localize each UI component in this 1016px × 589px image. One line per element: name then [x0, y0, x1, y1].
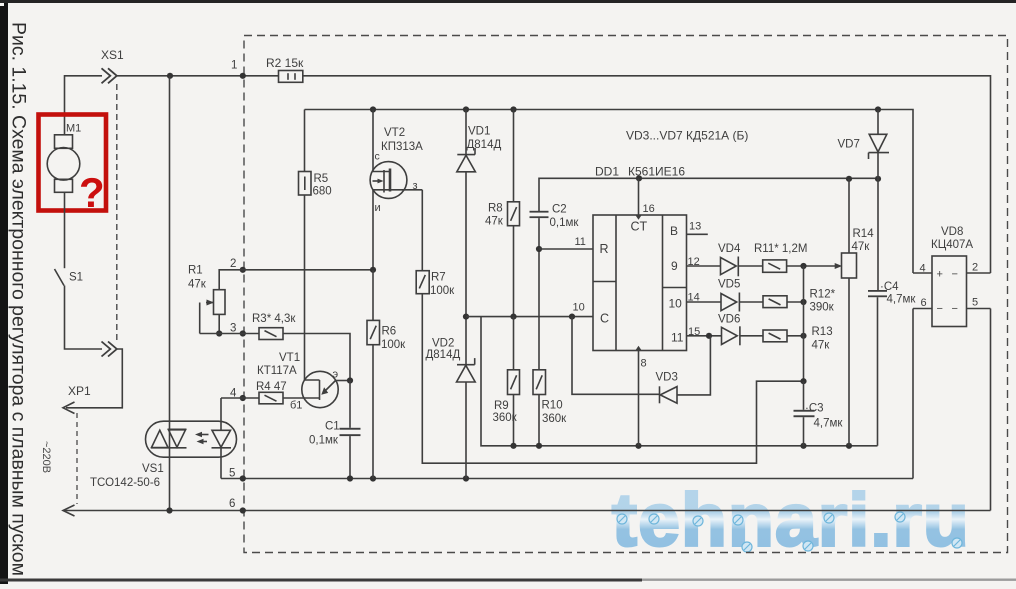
- svg-text:16: 16: [643, 203, 655, 215]
- svg-text:47к: 47к: [812, 340, 831, 352]
- wire motor to switch: [64, 192, 66, 268]
- dashed module boundary box: [244, 36, 1008, 553]
- connector XP1: [102, 342, 111, 357]
- capacitor C1 0.1uF: [309, 421, 361, 447]
- resistor R4 47: [256, 381, 287, 404]
- page top border line: [0, 0, 1016, 3]
- connector XS1/XP1 mating dashed line: [116, 84, 118, 340]
- wire R3 to VT1 emitter column: [283, 334, 350, 381]
- svg-text:13: 13: [689, 221, 701, 233]
- wire R1 lower lead: [218, 314, 220, 333]
- svg-text:б1: б1: [290, 400, 302, 412]
- svg-text:100к: 100к: [381, 339, 406, 351]
- zener VD2 D814D: [426, 338, 476, 383]
- svg-text:Д814Д: Д814Д: [467, 139, 502, 151]
- svg-text:и: и: [375, 202, 381, 214]
- svg-text:1: 1: [231, 60, 237, 72]
- wire node 3 row: [200, 333, 259, 335]
- pin 5 wire: [967, 308, 991, 310]
- wire supply bus to DD1 pin16: [539, 178, 878, 211]
- svg-text:11: 11: [575, 236, 586, 248]
- wire VT2 source to node2 bus: [372, 190, 374, 270]
- svg-text:47к: 47к: [852, 241, 871, 253]
- svg-text:э: э: [333, 369, 339, 381]
- svg-text:B: B: [670, 224, 678, 238]
- svg-text:C1: C1: [325, 421, 340, 433]
- trimmer R14 47k: [842, 179, 875, 446]
- wire VD7 to supply bus: [877, 153, 879, 179]
- resistor R12* 390k: [763, 289, 836, 314]
- svg-text:M1: M1: [66, 123, 81, 135]
- svg-text:10: 10: [669, 297, 683, 311]
- svg-text:S1: S1: [69, 272, 83, 284]
- svg-text:VD7: VD7: [838, 139, 860, 151]
- wire bottom return (node 6 bus) with arrow: [63, 510, 991, 512]
- svg-text:0,1мк: 0,1мк: [550, 217, 580, 229]
- svg-text:−: −: [952, 303, 958, 315]
- svg-text:R5: R5: [314, 173, 329, 185]
- svg-text:R13: R13: [812, 326, 833, 338]
- svg-text:·C4: ·C4: [880, 281, 899, 293]
- wire VT2 gate down to R7: [421, 190, 423, 271]
- svg-text:Д814Д: Д814Д: [426, 349, 461, 361]
- svg-text:R1: R1: [188, 265, 203, 277]
- svg-text:CT: CT: [631, 220, 648, 234]
- wire summing column: [803, 266, 805, 381]
- wire bridge left column to node5 bus: [912, 309, 914, 479]
- rectifier VD8 KTs407A: [931, 226, 973, 327]
- svg-text:VS1: VS1: [142, 463, 164, 475]
- svg-text:11: 11: [671, 331, 684, 345]
- svg-text:R2 15к: R2 15к: [266, 56, 304, 70]
- wire C1 to node5 bus: [349, 436, 351, 478]
- diode VD7: [838, 110, 890, 160]
- svg-text:VT1: VT1: [279, 352, 300, 364]
- red highlight box: [39, 115, 107, 211]
- wire C4 to ground rail: [877, 297, 879, 446]
- capacitor C2 0.1uF: [530, 204, 580, 230]
- resistor R2 15k: [266, 56, 304, 82]
- pin 8: [638, 351, 640, 446]
- wire R11 to R14 wiper: [787, 265, 836, 267]
- svg-text:360к: 360к: [542, 413, 567, 425]
- wire R12 to column: [787, 301, 804, 303]
- diode VD5: [721, 294, 737, 311]
- resistor R9 360k: [493, 317, 520, 424]
- svg-text:5: 5: [972, 297, 978, 309]
- capacitor C3 4.7uF: [794, 381, 844, 429]
- wire triac column: [169, 76, 171, 511]
- svg-text:VD3...VD7 КД521А (Б): VD3...VD7 КД521А (Б): [626, 129, 748, 143]
- svg-text:R9: R9: [494, 400, 509, 412]
- svg-text:Рис. 1.15. Схема электронного: Рис. 1.15. Схема электронного регулятора…: [8, 22, 29, 576]
- svg-text:6: 6: [229, 498, 235, 510]
- zener VD1 D814D: [457, 110, 502, 172]
- resistor R7 100k: [416, 271, 455, 297]
- svg-text:R11* 1,2M: R11* 1,2M: [754, 243, 807, 255]
- pin 15 wire: [687, 335, 723, 337]
- pin 6 wire: [913, 308, 932, 310]
- svg-text:12: 12: [688, 256, 700, 268]
- wire top bus (node 1 row): [65, 76, 103, 135]
- svg-text:9: 9: [671, 259, 678, 273]
- wire R input: [539, 248, 593, 250]
- svg-text:−: −: [937, 303, 943, 315]
- svg-text:2: 2: [972, 262, 978, 274]
- diode VD6: [722, 327, 738, 344]
- wire LED top to node 4: [220, 398, 222, 430]
- wire C3 to ground rail: [803, 417, 805, 446]
- wire XP1 down-left with arrow: [66, 349, 122, 408]
- wire R13 to column: [787, 335, 804, 337]
- wire VD6 to R13: [740, 335, 763, 337]
- wire node 2 row: [219, 270, 373, 290]
- svg-text:R10: R10: [542, 400, 563, 412]
- wire VD2 to node5 bus: [465, 382, 467, 479]
- wire drain bus (row below top): [305, 110, 914, 274]
- svg-text:R3* 4,3к: R3* 4,3к: [252, 313, 296, 325]
- svg-text:VD5: VD5: [718, 279, 740, 291]
- svg-text:VT2: VT2: [384, 127, 405, 139]
- svg-text:47к: 47к: [485, 216, 504, 228]
- resistor R3* 4.3k: [252, 313, 296, 340]
- svg-text:+: +: [937, 269, 943, 281]
- page left black bar: [0, 0, 8, 584]
- wire switch to XP1: [65, 286, 103, 350]
- page bottom border line: [0, 579, 642, 582]
- svg-text:XP1: XP1: [68, 384, 91, 398]
- svg-text:47к: 47к: [188, 279, 207, 291]
- svg-text:6: 6: [921, 297, 927, 309]
- svg-text:15: 15: [688, 326, 700, 338]
- pin 2 wire: [967, 272, 991, 274]
- wire VD1 to VD2: [465, 172, 467, 365]
- svg-text:КП313А: КП313А: [381, 141, 423, 153]
- svg-text:100к: 100к: [430, 285, 455, 297]
- svg-text:R8: R8: [488, 203, 503, 215]
- transistor VT2 KP313A: [370, 110, 423, 215]
- wire R4 to VT1 b1: [283, 397, 320, 399]
- svg-text:0,1мк: 0,1мк: [309, 435, 339, 447]
- wire R9/R10 bottoms to ground rail: [513, 395, 515, 446]
- svg-text:·C3: ·C3: [805, 403, 824, 415]
- resistor R6 100k: [367, 270, 406, 351]
- wire VD3 anode up to pin15 wire: [677, 336, 710, 395]
- svg-text:2: 2: [230, 258, 236, 270]
- wire R7 bottom long route to R13 column: [422, 294, 803, 464]
- mains dashed line: [76, 413, 78, 504]
- svg-text:680: 680: [313, 186, 332, 198]
- wire R6 to node5 bus: [372, 345, 374, 479]
- svg-text:R: R: [600, 242, 609, 256]
- svg-text:ТСО142-50-6: ТСО142-50-6: [90, 477, 160, 489]
- wire bridge right column to node6 bus: [990, 309, 992, 511]
- wire C2 to R input and down to R10: [538, 218, 540, 370]
- svg-text:4,7мк: 4,7мк: [887, 294, 917, 306]
- svg-text:VD6: VD6: [718, 314, 740, 326]
- svg-text:4,7мк: 4,7мк: [814, 418, 844, 430]
- svg-text:4: 4: [920, 263, 926, 275]
- svg-text:R14: R14: [853, 228, 875, 240]
- svg-text:10: 10: [573, 302, 585, 314]
- watermark tehnari.ru: [612, 477, 970, 561]
- transistor VT1 KT117A: [257, 195, 350, 412]
- wire emitter column to C1: [349, 381, 351, 428]
- svg-text:VD2: VD2: [432, 338, 454, 350]
- svg-text:К561ИЕ16: К561ИЕ16: [628, 165, 685, 179]
- diode VD3: [572, 317, 678, 404]
- pin 12 wire: [687, 265, 721, 267]
- svg-text:C: C: [600, 312, 609, 326]
- connector XS1: [102, 68, 111, 83]
- svg-text:VD3: VD3: [656, 372, 678, 384]
- svg-text:DD1: DD1: [595, 165, 619, 179]
- resistor R11* 1.2M: [754, 243, 807, 272]
- wire inner ground rail: [481, 317, 878, 446]
- IC DD1 K561IE16: [593, 165, 687, 351]
- svg-text:VD1: VD1: [468, 126, 490, 138]
- resistor R10 360k: [533, 370, 567, 425]
- motor M1: [47, 123, 81, 193]
- svg-text:КТ117А: КТ117А: [257, 365, 297, 377]
- potentiometer R1 47k: [188, 265, 225, 334]
- pin 4 wire: [913, 272, 932, 274]
- svg-text:R4 47: R4 47: [256, 381, 287, 393]
- resistor R13 47k: [763, 326, 833, 352]
- svg-text:R6: R6: [382, 326, 397, 338]
- pin 16: [638, 178, 640, 215]
- svg-text:КЦ407А: КЦ407А: [931, 239, 973, 251]
- svg-text:14: 14: [688, 292, 700, 304]
- wire C input row: [466, 316, 593, 318]
- capacitor C4 4.7uF: [868, 179, 916, 306]
- wire node 5 bus: [221, 478, 913, 480]
- svg-text:?: ?: [79, 169, 105, 216]
- svg-text:tehnari.ru: tehnari.ru: [612, 477, 970, 561]
- resistor R5 680: [299, 110, 332, 198]
- wire LED bottom to node 5 bus: [220, 448, 222, 479]
- optocoupler VS1 TCO142-50-6: [90, 421, 237, 489]
- svg-text:VD4: VD4: [718, 243, 741, 255]
- svg-text:VD8: VD8: [941, 226, 963, 238]
- svg-text:~220В: ~220В: [40, 441, 52, 473]
- svg-text:R7: R7: [431, 272, 446, 284]
- resistor R8 47k: [485, 110, 520, 228]
- pin 13 stub: [687, 233, 708, 235]
- svg-text:R12*: R12*: [810, 289, 836, 301]
- svg-text:с: с: [375, 151, 380, 163]
- wire VD4 to R11: [738, 265, 762, 267]
- diode VD4: [721, 258, 737, 275]
- svg-text:XS1: XS1: [101, 48, 124, 62]
- wire VD5 to R12: [739, 301, 763, 303]
- wire R8 to C-input wire: [513, 226, 515, 317]
- wire node 4 row: [221, 397, 259, 399]
- svg-text:8: 8: [641, 358, 647, 370]
- switch S1: [55, 269, 65, 286]
- svg-text:−: −: [952, 269, 958, 281]
- svg-text:з: з: [413, 180, 418, 192]
- svg-text:C2: C2: [552, 204, 567, 216]
- svg-text:390к: 390к: [810, 302, 835, 314]
- pin 14 wire: [687, 301, 722, 303]
